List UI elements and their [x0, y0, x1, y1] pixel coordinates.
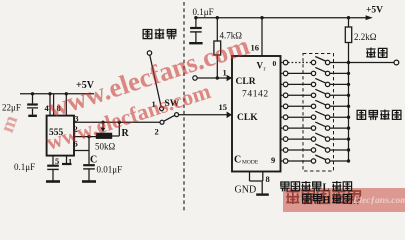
svg-text:2.2kΩ: 2.2kΩ — [354, 32, 377, 42]
svg-text:2: 2 — [155, 127, 159, 137]
svg-text:9: 9 — [271, 155, 275, 165]
switch S3 — [311, 93, 315, 97]
svg-text:8: 8 — [266, 174, 270, 184]
pin CLK wedge — [227, 112, 232, 119]
node 4.7k rail junction — [216, 16, 219, 19]
wire switch 3 to rail — [330, 94, 349, 96]
wire switch 4 to rail — [330, 105, 349, 107]
node pot end junction — [118, 121, 121, 124]
ground 0.1uF — [46, 180, 60, 183]
capacitor 0.1uF top — [190, 18, 202, 43]
wire 555 pin3 output to switch — [74, 121, 160, 123]
node pin8 rail junction — [65, 92, 68, 95]
svg-text:+5V: +5V — [366, 6, 383, 16]
wire 555 pin1 — [66, 156, 68, 164]
wire output 9 to switch — [288, 160, 311, 162]
wire switch 7 to rail — [330, 138, 349, 140]
svg-text:0.01μF: 0.01μF — [97, 165, 123, 175]
wire +5V top rail — [196, 17, 367, 19]
svg-text:CLK: CLK — [237, 113, 258, 123]
note line 1 "switch closed = L level" — [280, 181, 351, 191]
ground 0.1uF top — [189, 42, 202, 44]
resistor 4.7k — [214, 18, 221, 78]
node rail junction 9 — [347, 159, 350, 162]
wire output 7 to switch — [288, 138, 311, 140]
switch S4 — [311, 104, 315, 108]
switch S1 — [311, 71, 315, 75]
watermark diagonal 2 — [43, 78, 214, 156]
pin output 5 bubble — [281, 116, 283, 118]
node rail junction 2 — [347, 83, 350, 86]
wire switch 2 to rail — [330, 83, 349, 85]
svg-text:1: 1 — [223, 68, 227, 78]
wire switch 5 to rail — [330, 116, 349, 118]
switch SW1 throw 2 — [160, 120, 164, 124]
svg-text:SW: SW — [165, 99, 180, 109]
ground 22uF — [28, 115, 37, 117]
svg-text:50kΩ: 50kΩ — [95, 142, 116, 152]
IC U1 555 timer — [47, 116, 74, 156]
switch S6 — [311, 126, 315, 130]
node rail junction 7 — [347, 137, 350, 140]
wire output row to terminal — [330, 62, 394, 64]
pin output 8 bubble — [281, 149, 283, 151]
node CLR terminal — [193, 76, 197, 80]
wire switch 6 to rail — [330, 127, 349, 129]
svg-text:4.7kΩ: 4.7kΩ — [220, 31, 243, 41]
svg-text:5: 5 — [55, 156, 59, 166]
wire output 6 to switch — [288, 127, 311, 129]
pin output 0 bubble — [281, 62, 283, 64]
wire switch 9 to rail — [330, 160, 349, 162]
switch S5 — [311, 115, 315, 119]
watermark diagonal 1 — [44, 30, 253, 124]
capacitor C 0.01uF — [83, 165, 95, 180]
wire 555 pin8 — [54, 94, 67, 116]
switch SW1 throw 1 — [160, 107, 164, 111]
node CLR 4.7k junction — [216, 76, 219, 79]
power +5V arrow top right — [366, 15, 373, 20]
wire output 1 to switch — [288, 72, 311, 74]
label output "shu chu" — [366, 48, 387, 58]
ground pin1 — [62, 163, 71, 165]
svg-text:+5V: +5V — [76, 80, 95, 91]
wire switch 8 to rail — [330, 149, 349, 151]
svg-text:0.1μF: 0.1μF — [193, 7, 214, 17]
node rail junction 0 — [347, 61, 350, 64]
note line 2 "open = H level" — [303, 194, 352, 204]
switch S7 — [311, 137, 315, 141]
node rail junction 4 — [347, 105, 350, 108]
wire pin16 — [261, 18, 263, 56]
svg-text:L: L — [323, 183, 330, 194]
svg-text:C: C — [234, 155, 241, 166]
svg-text:15: 15 — [219, 102, 228, 112]
capacitor 22uF — [27, 94, 38, 115]
wire 555 pin4 — [49, 94, 51, 116]
switch S0 — [311, 60, 315, 64]
node rail junction 6 — [347, 126, 350, 129]
wire +5V left rail — [20, 93, 94, 95]
pin output 6 bubble — [281, 127, 283, 129]
svg-text:16: 16 — [251, 43, 260, 53]
node clock source terminal — [147, 51, 151, 55]
node pin16 rail junction — [260, 16, 263, 19]
svg-text:8: 8 — [57, 103, 61, 113]
node pin4 rail junction — [48, 92, 51, 95]
node rail junction 5 — [347, 116, 350, 119]
svg-text:3: 3 — [75, 115, 79, 124]
svg-text:22μF: 22μF — [2, 103, 21, 113]
svg-text:CLR: CLR — [236, 77, 256, 87]
svg-text:0.1μF: 0.1μF — [14, 162, 35, 172]
dashed box digital switches — [303, 54, 334, 172]
label clock source "shi zhong yuan" — [143, 29, 176, 40]
watermark fragment left edge — [0, 112, 23, 136]
node rail junction 1 — [347, 72, 350, 75]
wire dashed divider — [183, 2, 185, 212]
svg-text:2: 2 — [74, 124, 78, 134]
svg-text:V: V — [257, 61, 264, 71]
wire CLR input — [197, 77, 232, 79]
wire 555 pin5 — [52, 156, 54, 165]
wire output 8 to switch — [288, 149, 311, 151]
pin output 2 bubble — [281, 83, 283, 85]
wire output 2 to switch — [288, 83, 311, 85]
ground GND bar — [256, 193, 269, 195]
watermark banner latin — [353, 196, 405, 206]
node 0.1uF rail junction — [194, 16, 197, 19]
switch S2 — [311, 82, 315, 86]
IC U2 74142 — [232, 56, 281, 172]
label digital switch "shu zi kai guan" — [357, 110, 401, 121]
capacitor 0.1uF at pin5 — [47, 166, 59, 181]
node wiper junction — [101, 121, 104, 124]
watermark banner background — [283, 188, 405, 212]
switch S9 — [311, 159, 315, 163]
pin output 1 bubble — [281, 72, 283, 74]
svg-text:H: H — [323, 195, 331, 206]
switch SW1 blade — [164, 115, 175, 121]
svg-text:GND: GND — [235, 185, 257, 196]
switch S8 — [311, 148, 315, 152]
svg-text:MODE: MODE — [242, 160, 259, 166]
wire output 5 to switch — [288, 116, 311, 118]
wire SW1 pole to CLK — [179, 114, 232, 116]
pin CLR wedge — [227, 75, 232, 82]
ground 0.01uF — [82, 180, 96, 183]
node 2.2k rail junction — [347, 16, 350, 19]
svg-text:555: 555 — [49, 128, 64, 138]
pin output 7 bubble — [281, 138, 283, 140]
node 22uF rail junction — [31, 92, 34, 95]
resistor 2.2k — [345, 18, 351, 63]
svg-text:0: 0 — [273, 59, 277, 68]
pin output 4 bubble — [281, 105, 283, 107]
node rail junction 3 — [347, 94, 350, 97]
wire output 3 to switch — [288, 94, 311, 96]
wire clock source to SW1 throw1 — [150, 55, 161, 106]
node output terminal — [394, 60, 399, 65]
wire switch 1 to rail — [330, 72, 349, 74]
wire output 4 to switch — [288, 105, 311, 107]
wire common output rail — [348, 63, 350, 161]
node rail junction 8 — [347, 148, 350, 151]
switch SW1 pole — [175, 113, 179, 117]
svg-text:R: R — [122, 128, 130, 139]
wire 555 pin6 — [74, 150, 89, 152]
wire output 0 to switch — [288, 62, 311, 64]
wire tie down to C — [88, 137, 90, 165]
svg-text:1: 1 — [152, 99, 156, 109]
pin output 3 bubble — [281, 94, 283, 96]
resistor R 50k potentiometer — [96, 122, 119, 138]
svg-text:r: r — [264, 67, 266, 73]
wire 555 pin2 to pot left end — [74, 136, 96, 138]
wire IC ground pins to GND — [250, 172, 263, 195]
pin output 9 bubble — [281, 160, 283, 162]
svg-text:1: 1 — [68, 157, 72, 167]
svg-text:4: 4 — [45, 103, 50, 113]
node pin2 tie junction — [87, 135, 90, 138]
svg-text:74142: 74142 — [242, 90, 269, 100]
svg-text:6: 6 — [74, 139, 78, 149]
